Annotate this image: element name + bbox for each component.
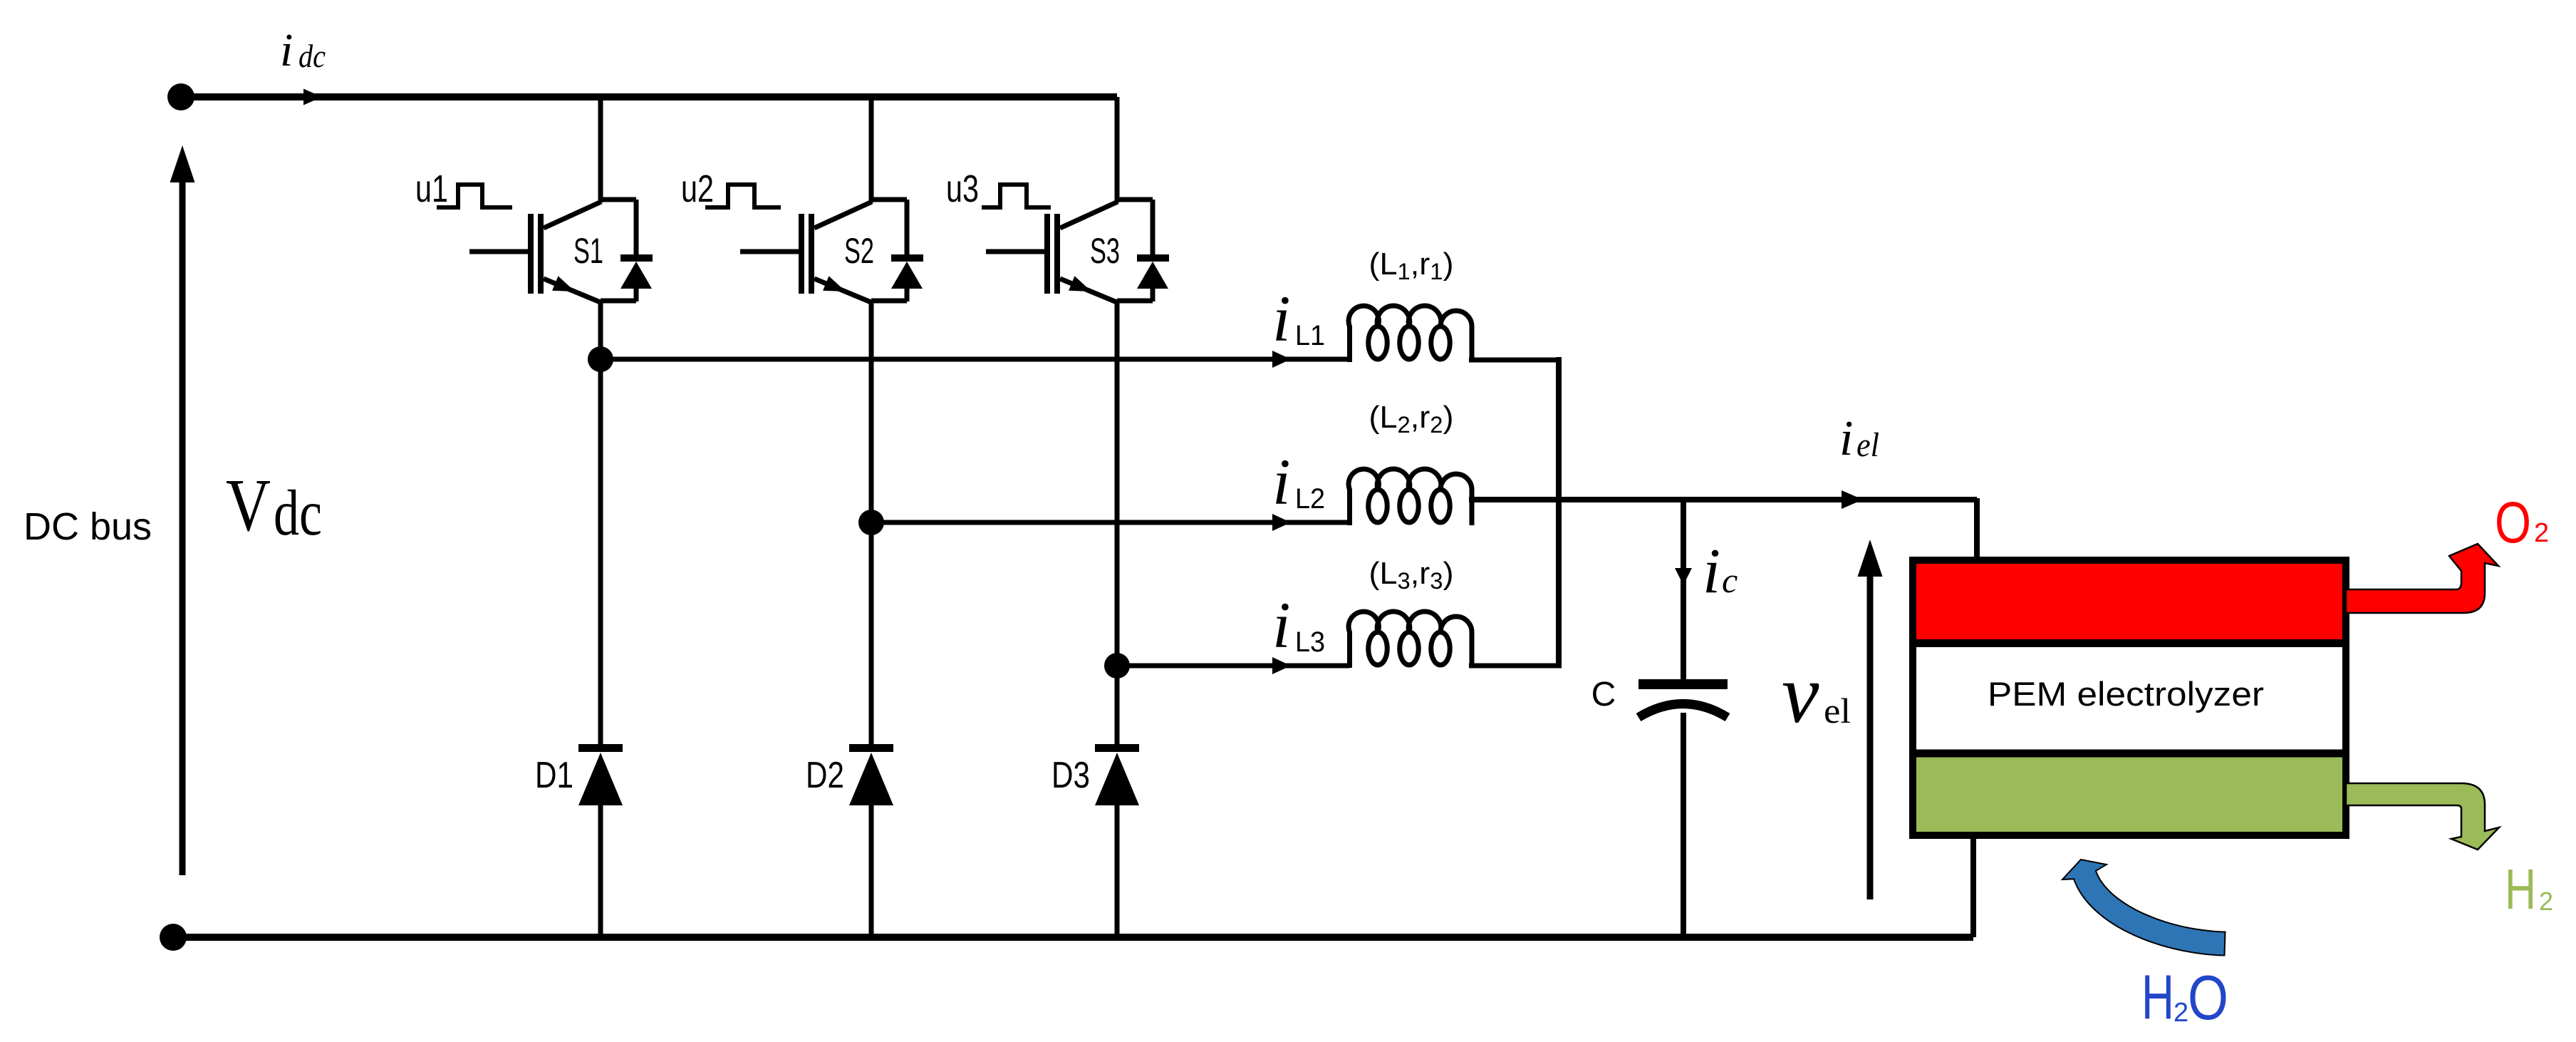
svg-text:H: H [2141, 961, 2174, 1032]
svg-text:L2: L2 [1295, 483, 1325, 515]
svg-text:el: el [1856, 426, 1879, 464]
svg-text:S1: S1 [573, 231, 603, 271]
svg-text:2: 2 [2534, 518, 2549, 548]
svg-text:2: 2 [2173, 998, 2188, 1028]
svg-text:D3: D3 [1051, 755, 1090, 796]
svg-text:O: O [2188, 962, 2228, 1033]
svg-text:DC bus: DC bus [24, 505, 152, 548]
svg-text:D1: D1 [535, 755, 573, 796]
svg-text:S2: S2 [844, 231, 874, 271]
svg-text:el: el [1824, 691, 1851, 731]
svg-text:c: c [1722, 560, 1738, 600]
svg-text:2: 2 [2539, 887, 2553, 916]
svg-text:u3: u3 [946, 167, 979, 210]
svg-text:i: i [280, 24, 293, 76]
svg-text:H: H [2505, 857, 2536, 921]
svg-text:v: v [1782, 647, 1819, 741]
svg-text:V: V [226, 463, 271, 547]
svg-text:u2: u2 [681, 167, 714, 210]
svg-text:i: i [1839, 411, 1853, 466]
svg-text:i: i [1272, 445, 1291, 518]
svg-text:i: i [1272, 589, 1291, 661]
svg-text:C: C [1591, 676, 1616, 713]
svg-text:dc: dc [274, 477, 322, 549]
svg-text:L3: L3 [1295, 626, 1325, 658]
svg-text:O: O [2495, 490, 2531, 555]
svg-text:i: i [1703, 536, 1720, 607]
svg-text:D2: D2 [806, 755, 844, 796]
svg-text:L1: L1 [1295, 320, 1325, 351]
svg-text:i: i [1272, 282, 1291, 355]
svg-text:S3: S3 [1090, 231, 1120, 271]
svg-text:u1: u1 [415, 167, 448, 210]
svg-text:PEM electrolyzer: PEM electrolyzer [1988, 675, 2264, 713]
svg-text:dc: dc [298, 38, 326, 74]
